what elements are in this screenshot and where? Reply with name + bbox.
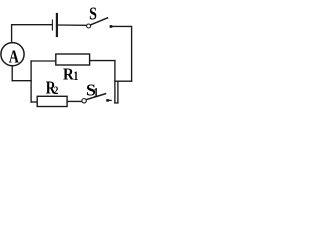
svg-text:1: 1 bbox=[73, 70, 78, 83]
svg-text:1: 1 bbox=[94, 87, 99, 100]
svg-text:A: A bbox=[9, 48, 19, 67]
svg-text:2: 2 bbox=[54, 85, 59, 97]
svg-text:S: S bbox=[89, 5, 97, 24]
